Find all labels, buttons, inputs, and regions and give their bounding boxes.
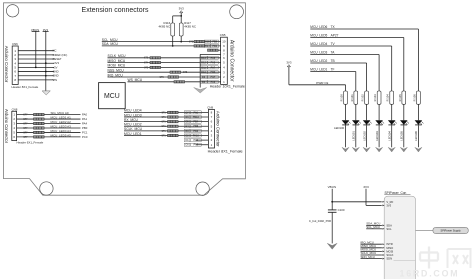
ground LED101 [352,147,359,152]
wire CN8 pin2 net MCU_LED1 A1 [17,116,88,121]
wire net IRQ_MCU to CN5 D9 [108,73,221,79]
power flag 3V3 SPIRIT [363,185,369,189]
svg-text:16RD.COM: 16RD.COM [400,268,460,278]
power flag 3V3 LED100 [286,60,292,67]
svg-text:VBUS: VBUS [328,185,336,189]
svg-text:CN5: CN5 [220,33,226,37]
wire R102 to LED102 [366,104,368,120]
wire VBUS to CN6 pin5 [32,31,40,68]
wire CN6 pin4 +3V3 [18,61,59,65]
svg-text:Extension connectors: Extension connectors [82,7,149,14]
svg-text:PC1: PC1 [82,130,88,134]
svg-text:MCU_LED5 A5: MCU_LED5 A5 [51,133,72,137]
svg-text:Arduino Connector: Arduino Connector [216,111,221,147]
wire CN6 pin8 VIN [18,78,57,82]
svg-text:R 101: R 101 [350,94,354,102]
svg-text:INTR: INTR [386,242,392,246]
wire R116 to SDA [172,36,174,47]
svg-text:GND: GND [53,69,59,73]
wire CN8 pin1 net SIG_MCU A0 [17,111,88,116]
svg-text:MCU_LED4 A4: MCU_LED4 A4 [51,129,72,133]
svg-text:MCU_LED4: MCU_LED4 [310,42,327,46]
resistor R106 [412,91,420,104]
svg-text:SDN_MCU: SDN_MCU [361,255,375,259]
svg-text:ST5: ST5 [144,67,149,69]
wire R103 to LED103 [378,104,380,120]
svg-text:ST7: ST7 [23,137,28,139]
svg-text:RESET: RESET [53,57,62,61]
svg-text:R 100: R 100 [340,94,344,102]
ground LED103 [376,147,383,152]
svg-text:Header 6X1_Female: Header 6X1_Female [17,141,44,145]
svg-text:MCU_LED2 A2: MCU_LED2 A2 [51,120,72,124]
svg-text:LED104: LED104 [388,131,392,141]
wire CN5 pin7 GND [200,54,220,87]
svg-text:PA9: PA9 [211,81,216,84]
wire block to supply [416,230,434,232]
wire net MCU_LED2 to CN9 D4 [124,123,208,129]
svg-text:Arduino Connector: Arduino Connector [4,46,9,83]
svg-text:SPIPower Supply: SPIPower Supply [441,229,462,233]
mounting hole top-right [230,5,244,19]
wire net SCLK_MCU to CN9 D3 [124,127,208,133]
svg-text:LED102: LED102 [362,131,366,141]
pin 3V3 SPIPower_Con [382,203,391,207]
svg-text:R 106: R 106 [412,94,416,102]
svg-text:SCL_MCU: SCL_MCU [366,225,380,229]
LED LED104 [388,120,397,141]
LED LED103 [375,120,384,141]
svg-text:3V3: 3V3 [386,203,391,207]
watermark glyph 2 [448,249,471,268]
resistor R117 [179,21,196,36]
board outline sheet [4,3,246,195]
wire LED100 to ground [345,125,347,147]
svg-text:ST8: ST8 [183,72,188,74]
svg-text:MCU_LED1: MCU_LED1 [310,68,327,72]
LED LED106 [414,120,423,141]
svg-text:TB: TB [331,59,335,63]
wire net MCU_LED4 [310,42,391,91]
wire CN6 pin5 +5V [18,65,57,69]
wire LED105 to ground [403,125,405,147]
svg-text:Header 10X1_Female: Header 10X1_Female [210,84,245,88]
svg-text:ST1: ST1 [162,131,167,133]
pin V_RF SPIPower_Con [382,200,393,204]
ground CN5 [194,88,207,94]
wire net NSS_MCU to CN5 D10 [108,69,221,75]
svg-text:PB8: PB8 [212,41,217,44]
svg-text:PA4: PA4 [82,121,88,125]
wire R117 to SCL [180,36,182,42]
block SPIPower Supply [433,227,468,233]
ground LED104 [388,147,395,152]
svg-text:NC: NC [53,49,57,53]
wire net PWR Ok [289,67,346,91]
watermark url text [400,268,460,278]
wire CN6 pin2 IOREF (NC) [18,53,67,57]
pin SCL SPIPower_Con [382,227,392,231]
svg-text:PB3: PB3 [193,130,198,133]
wire 3V3 to pullups [173,13,182,23]
wire net MISO_MCU to CN5 D12 [108,59,221,65]
svg-text:ST1: ST1 [162,112,167,114]
wire CN8 pin4 net MCU_LED3 A3 [17,124,88,129]
svg-text:R 104: R 104 [386,94,390,102]
svg-text:PB6: PB6 [211,71,216,74]
svg-text:ST7: ST7 [23,132,28,134]
wire 3V3 to block [366,189,382,206]
wire LED104 to ground [391,125,393,147]
ground LED106 [415,147,422,152]
ground CN6 [42,91,50,95]
ground LED100 [342,147,349,152]
block SPIPower_Con [384,191,415,279]
wire CN8 pin5 net MCU_LED4 A4 [17,129,88,134]
svg-text:R 102: R 102 [361,94,365,102]
ground LED102 [363,147,370,152]
svg-text:PC0: PC0 [82,135,88,139]
svg-text:SDA: SDA [386,223,392,227]
wire net SCLK_MCU to CN5 D13 [108,54,221,60]
wire CN9 D1 stub [184,139,208,143]
wire net SCL_MCU [102,38,221,44]
svg-text:SDN: SDN [386,257,392,261]
svg-text:PB4: PB4 [193,121,198,124]
svg-text:SCLK: SCLK [386,253,393,257]
svg-text:PC7: PC7 [210,76,215,79]
pin INTR SPIPower_Con [382,242,392,246]
svg-text:IOREF (NC): IOREF (NC) [53,53,68,57]
wire LED103 to ground [378,125,380,147]
resistor R103 [373,91,381,104]
svg-text:D15: D15 [205,41,210,44]
wire net MCU_LED6 [310,25,418,91]
wire net SDN_MCU bottom [361,255,382,259]
wire C100 to ground [331,212,333,243]
wire CN8 pin6 net MCU_LED5 A5 [17,133,88,138]
svg-text:ST7: ST7 [23,119,28,121]
resistor R101 [350,91,358,104]
wire SDN internal [394,259,416,261]
wire net WS_MCU to CN5 D8 [128,78,221,84]
pin SDN SPIPower_Con [382,257,392,261]
wire VBUS to V_RF and C100 [331,189,381,210]
svg-text:SCL: SCL [386,227,392,231]
svg-text:MCU_LED6: MCU_LED6 [310,25,327,29]
svg-text:ST1: ST1 [162,135,167,137]
connector CN6 Arduino power header [4,42,38,89]
wire R101 to LED101 [355,104,357,120]
svg-text:PA7: PA7 [211,66,216,69]
ground C100 [327,243,337,249]
svg-text:MCU: MCU [104,93,120,100]
resistor R102 [361,91,369,104]
wire net SDA_MCU bottom [366,222,382,226]
pin MOSI SPIPower_Con [382,249,393,253]
wire LED102 to ground [366,125,368,147]
mounting hole bottom-right [196,182,209,195]
svg-text:GND: GND [53,74,59,78]
wire CN6 pin1 NC [18,49,56,53]
svg-text:C_bul_0402_X5R: C_bul_0402_X5R [309,219,331,223]
svg-text:MOSI: MOSI [386,249,393,253]
wire net MCU_LED1 to CN9 D2 [124,132,208,138]
svg-text:3V3: 3V3 [179,6,185,10]
svg-text:PA3: PA3 [194,144,199,147]
watermark glyph 1 [420,247,438,269]
LED LED101 [352,120,361,141]
wire net MCU_LED3 [310,51,379,91]
svg-text:ST2: ST2 [189,42,194,44]
svg-text:PA2: PA2 [194,139,199,142]
svg-text:LED105: LED105 [400,131,404,141]
svg-text:PA0: PA0 [82,113,88,117]
wire R105 to LED105 [403,104,405,120]
wire net MOSI_MCU to CN5 D11 [108,64,221,70]
svg-text:4K85 NC: 4K85 NC [158,24,170,28]
svg-text:CN6: CN6 [12,42,18,46]
svg-text:LED100: LED100 [334,126,345,130]
pin MISO SPIPower_Con [382,246,393,250]
svg-text:R 103: R 103 [373,94,377,102]
svg-text:ST1: ST1 [162,126,167,128]
svg-text:ST7: ST7 [23,123,28,125]
svg-text:PA10: PA10 [193,134,200,137]
svg-text:CN9: CN9 [207,106,213,110]
svg-text:ST3: ST3 [144,58,149,60]
power flag 3V3 pullups [179,6,185,13]
connector CN9 Arduino digital header D0-D7 [207,106,242,154]
wire 3V3/GND vertical CN6 [43,31,49,91]
svg-text:ST9: ST9 [160,77,165,79]
LED LED102 [362,120,371,141]
svg-text:PA6: PA6 [211,62,216,65]
mounting hole top-left [6,5,18,17]
wire R104 to LED104 [391,104,393,120]
svg-text:LED101: LED101 [352,131,356,141]
connector CN8 Arduino analog header [4,108,43,145]
LED LED100 [334,120,351,130]
svg-text:ST1: ST1 [162,117,167,119]
svg-text:MCU_LED2: MCU_LED2 [310,59,327,63]
wire net IRQ_MCU bottom [361,240,382,244]
ground LED105 [400,147,407,152]
svg-text:D10: D10 [201,71,206,74]
pin SDA SPIPower_Con [382,223,392,227]
wire LED101 to ground [355,125,357,147]
svg-text:VIN: VIN [53,78,58,82]
svg-text:3V3: 3V3 [363,185,369,189]
wire CN6 pin6 GND [18,69,58,73]
svg-text:Header 8X1_Female: Header 8X1_Female [208,150,243,154]
wire net MISO_MCU bottom [361,244,382,248]
svg-text:4K85 NC: 4K85 NC [184,24,196,28]
wire net MCU_LED2 [310,59,366,91]
resistor R116 [158,21,174,36]
svg-text:Arduino Connector: Arduino Connector [228,40,234,82]
resistor R105 [398,91,406,104]
svg-text:ST7: ST7 [23,115,28,117]
wire net MOSI_MCU bottom [361,248,382,252]
wire CN8 pin3 net MCU_LED2 A2 [17,120,88,125]
svg-text:PA5: PA5 [211,57,216,60]
wire CN5 pin8 AVDD stub [208,49,221,51]
svg-text:AP27: AP27 [331,34,339,38]
svg-text:V_RF: V_RF [386,200,393,204]
svg-text:PWR Ok: PWR Ok [316,81,328,85]
svg-text:PB5: PB5 [193,125,198,128]
svg-text:PB9: PB9 [212,45,217,48]
LED LED105 [400,120,409,141]
resistor R104 [386,91,394,104]
wire net SCLK_MCU bottom [361,251,382,255]
svg-text:D14: D14 [205,45,210,48]
connector CN5 Arduino digital header D8-D15 [210,33,245,88]
svg-text:+5V: +5V [53,65,58,69]
svg-text:MISO: MISO [386,246,393,250]
svg-text:PB0: PB0 [82,126,88,130]
svg-text:MCU_LED5: MCU_LED5 [310,34,327,38]
svg-text:MCU_LED3: MCU_LED3 [310,51,327,55]
svg-text:C100: C100 [338,208,345,212]
resistor R100 [340,91,348,104]
wire R106 to LED106 [417,104,419,120]
wire CN6 pin7 GND [18,74,58,78]
svg-text:D11: D11 [201,66,206,69]
svg-text:SIG_MCU A0: SIG_MCU A0 [51,111,69,115]
wire net RX_MCU to CN9 D5 [124,118,208,124]
svg-text:PB10: PB10 [193,116,200,119]
svg-text:SPIPower_Con: SPIPower_Con [385,191,407,195]
power flag VBUS [31,28,39,32]
svg-text:R 105: R 105 [398,94,402,102]
wire CN6 pin3 RESET [18,57,62,61]
svg-text:ST4: ST4 [144,63,149,65]
power flag VBUS bottom [328,185,336,189]
svg-text:ST7: ST7 [23,128,28,130]
op-amp MCU block U1 [99,83,126,109]
pin SCLK SPIPower_Con [382,253,393,257]
svg-text:TF: TF [331,68,335,72]
wire CN9 D0 stub [184,143,208,147]
title Extension connectors [82,7,149,14]
power flag 3V3 [43,28,49,32]
svg-text:LED103: LED103 [375,131,379,141]
wire net MCU_LED5 [310,34,404,91]
wire net SDA_MCU [102,42,221,48]
svg-text:Arduino Connector: Arduino Connector [4,109,9,144]
svg-text:3V3: 3V3 [286,60,292,64]
mounting hole bottom-left [40,182,53,195]
wire R100 to LED100 [345,104,347,120]
svg-text:MCU_LED1 A1: MCU_LED1 A1 [51,116,72,120]
wire net MCU_LED3 to CN9 D6 [124,113,208,119]
svg-text:PA8: PA8 [194,111,199,114]
svg-text:+3V3: +3V3 [53,61,60,65]
svg-text:D12: D12 [201,62,206,65]
svg-text:ST1: ST1 [162,122,167,124]
wire net MCU_LED1 [310,68,356,91]
capacitor C100 [309,208,345,223]
svg-text:LED106: LED106 [414,131,418,141]
wire LED106 to ground [417,125,419,147]
svg-text:Header 8X1_Female: Header 8X1_Female [12,85,39,89]
svg-text:D13: D13 [201,57,206,60]
svg-text:PA1: PA1 [82,117,88,121]
wire net MCU_LED4 to CN9 D7 [124,109,208,115]
svg-text:MCU_LED3 A3: MCU_LED3 A3 [51,124,72,128]
wire net SCL_MCU bottom [366,225,382,229]
